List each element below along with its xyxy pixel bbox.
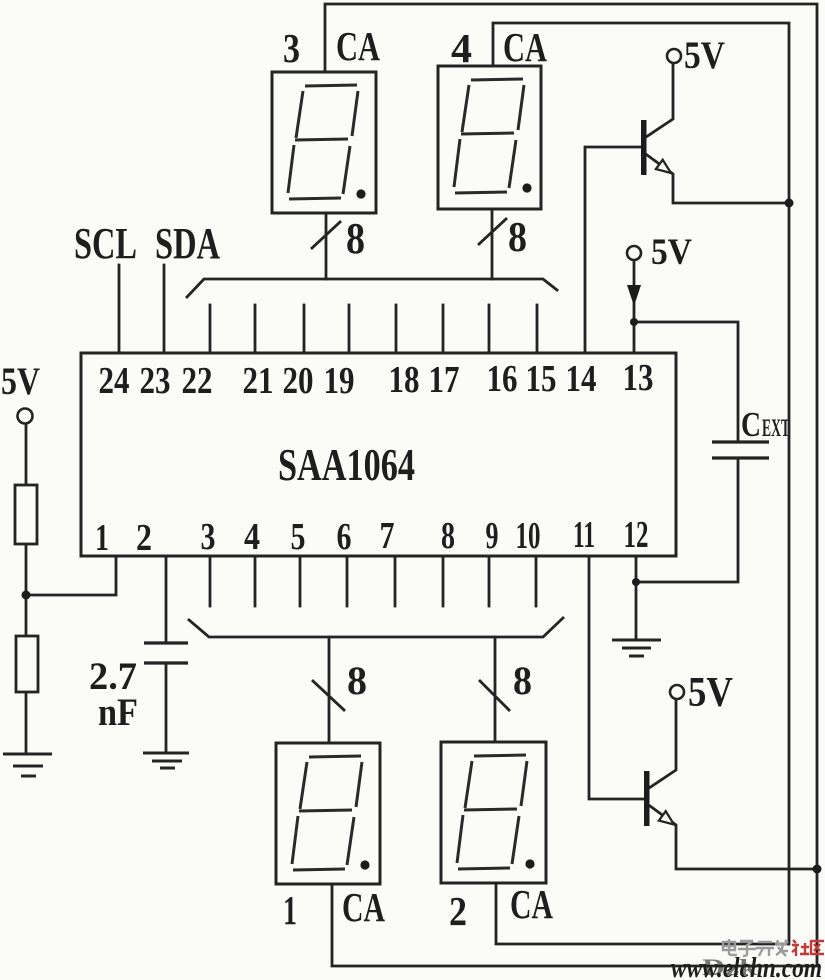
svg-text:EXT: EXT [762, 415, 790, 442]
svg-text:3: 3 [201, 516, 216, 558]
svg-text:5V: 5V [684, 34, 725, 77]
svg-text:8: 8 [347, 658, 367, 703]
svg-text:5V: 5V [688, 670, 733, 716]
svg-text:SCL: SCL [74, 219, 137, 268]
svg-text:12: 12 [624, 514, 649, 556]
svg-text:22: 22 [182, 360, 213, 402]
svg-text:CA: CA [342, 884, 385, 930]
svg-text:3: 3 [283, 25, 300, 71]
svg-text:2: 2 [136, 517, 152, 559]
svg-text:1: 1 [283, 887, 297, 933]
svg-text:8: 8 [346, 214, 365, 263]
svg-text:15: 15 [526, 358, 557, 400]
svg-text:17: 17 [429, 359, 460, 401]
svg-text:9: 9 [486, 515, 499, 557]
svg-text:11: 11 [573, 514, 595, 556]
svg-text:SAA1064: SAA1064 [278, 439, 415, 490]
svg-text:24: 24 [99, 360, 130, 402]
svg-text:SDA: SDA [155, 219, 220, 268]
svg-text:23: 23 [140, 360, 171, 402]
svg-text:6: 6 [337, 516, 352, 558]
svg-text:16: 16 [487, 358, 518, 400]
svg-text:CA: CA [510, 881, 553, 927]
svg-text:21: 21 [243, 360, 274, 402]
svg-text:2: 2 [449, 888, 467, 934]
svg-text:19: 19 [324, 360, 355, 402]
svg-text:4: 4 [244, 516, 260, 558]
svg-text:1: 1 [95, 517, 109, 559]
svg-text:www.elchn.com: www.elchn.com [671, 952, 822, 980]
svg-text:18: 18 [389, 359, 420, 401]
svg-text:20: 20 [283, 360, 314, 402]
svg-text:13: 13 [623, 357, 654, 399]
svg-text:C: C [741, 405, 761, 444]
svg-text:5: 5 [291, 516, 306, 558]
svg-text:5V: 5V [1, 360, 40, 403]
svg-text:7: 7 [380, 515, 395, 557]
svg-text:8: 8 [513, 658, 532, 703]
svg-text:4: 4 [451, 25, 472, 71]
svg-text:CA: CA [336, 23, 380, 69]
svg-text:8: 8 [508, 215, 527, 261]
svg-text:CA: CA [503, 24, 547, 70]
svg-text:nF: nF [98, 691, 138, 734]
svg-text:10: 10 [516, 515, 541, 557]
svg-text:14: 14 [566, 358, 597, 400]
svg-text:8: 8 [441, 515, 455, 557]
svg-text:5V: 5V [651, 232, 692, 273]
